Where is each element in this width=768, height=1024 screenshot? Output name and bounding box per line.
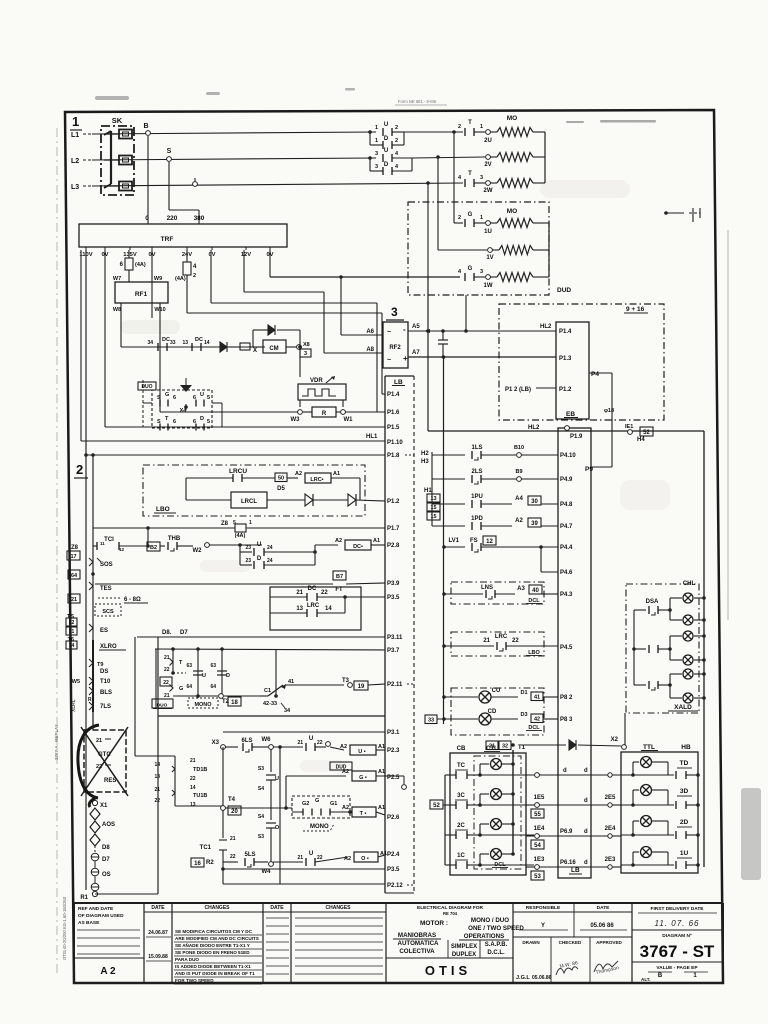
- wire C1 to T3: [285, 684, 344, 686]
- wire 0V drop c: [210, 250, 212, 303]
- terminal IE1 + H4: [628, 430, 633, 435]
- terminal X1: [92, 800, 97, 805]
- relay LRCL box: [231, 492, 267, 508]
- terminal row1: [535, 773, 540, 778]
- svg-text:AOS: AOS: [102, 822, 115, 828]
- svg-text:P1.6: P1.6: [387, 410, 400, 416]
- svg-text:-: -: [403, 325, 406, 334]
- svg-text:33: 33: [428, 718, 434, 724]
- svg-text:1: 1: [249, 520, 252, 526]
- connector column HL2 (right): [558, 428, 591, 878]
- label XLRL rotated: [71, 699, 77, 712]
- svg-text:LV1: LV1: [448, 538, 459, 544]
- svg-text:TC1: TC1: [200, 845, 212, 851]
- spare contact symbol right: [664, 211, 668, 215]
- lamp CU row P8.2: [444, 696, 478, 698]
- svg-text:23: 23: [245, 545, 251, 551]
- svg-text:21: 21: [164, 655, 170, 661]
- svg-text:W9: W9: [154, 276, 162, 282]
- svg-text:2C: 2C: [457, 823, 465, 829]
- contact 4G3: [465, 273, 474, 281]
- wire P4 to P9 link: [589, 372, 612, 374]
- svg-text:21: 21: [483, 638, 490, 644]
- svg-text:B: B: [658, 973, 663, 979]
- svg-text:G: G: [179, 686, 183, 692]
- wire 0V drop b: [151, 250, 153, 318]
- svg-text:C1: C1: [264, 688, 271, 694]
- lamp 3: [683, 631, 693, 641]
- svg-text:P4.9: P4.9: [560, 477, 573, 483]
- wire T4 row: [225, 807, 292, 809]
- svg-text:13: 13: [430, 496, 436, 502]
- svg-text:2W: 2W: [484, 188, 493, 194]
- svg-text:1C: 1C: [457, 853, 465, 859]
- svg-text:~: ~: [387, 329, 391, 336]
- wire 24V drop + fuse 4: [186, 250, 188, 262]
- svg-text:W8: W8: [113, 307, 121, 313]
- svg-text:LRC: LRC: [307, 603, 320, 609]
- contact LV1 FS row P4.4: [445, 546, 465, 548]
- svg-text:14: 14: [69, 643, 75, 649]
- svg-text:MANIOBRAS: MANIOBRAS: [398, 932, 436, 939]
- wire row CM: [121, 346, 265, 348]
- wire row W3: [160, 411, 300, 413]
- contact 1LS row P4.10: [432, 454, 465, 456]
- svg-text:d: d: [584, 829, 588, 835]
- cap contact 63D64: [221, 649, 223, 696]
- tap X on L3: [193, 182, 198, 187]
- lamp row TC: [478, 773, 482, 777]
- svg-text:34: 34: [284, 708, 291, 714]
- box TTL HB: [621, 752, 698, 873]
- svg-text:G •: G •: [359, 775, 367, 781]
- svg-text:21: 21: [297, 740, 303, 746]
- svg-text:P3.7: P3.7: [387, 648, 400, 654]
- contact 34 DC 33: [158, 343, 167, 351]
- svg-text:OF DIAGRAM USED: OF DIAGRAM USED: [78, 913, 124, 919]
- svg-text:MO: MO: [507, 208, 517, 215]
- wire bus into GTC: [92, 712, 94, 730]
- svg-text:14: 14: [154, 762, 160, 768]
- svg-text:W5: W5: [72, 679, 80, 685]
- contact 4T3: [465, 179, 474, 187]
- svg-text:13: 13: [182, 340, 188, 346]
- wire row 716: [158, 715, 385, 717]
- wire branch L2 to D contact: [368, 156, 372, 160]
- bank2 right bus: [548, 223, 550, 277]
- svg-text:MONO / DUO: MONO / DUO: [471, 917, 509, 924]
- svg-text:DC: DC: [195, 337, 203, 343]
- svg-text:MOTOR :: MOTOR :: [420, 920, 448, 927]
- svg-text:L3: L3: [71, 184, 79, 191]
- wire 0V rail a: [104, 250, 106, 427]
- box LNS (dash-dot): [451, 582, 544, 604]
- wire branch L1 to D contact: [368, 130, 372, 134]
- wire XALD to X2: [624, 713, 626, 745]
- svg-text:DSA: DSA: [646, 599, 659, 605]
- node X8: [297, 345, 302, 350]
- svg-text:P6.16: P6.16: [560, 860, 576, 866]
- svg-text:P1.8: P1.8: [387, 453, 400, 459]
- XALD left bus: [633, 610, 635, 685]
- svg-text:DS: DS: [100, 669, 108, 675]
- svg-text:15: 15: [430, 514, 436, 520]
- svg-text:(4A): (4A): [235, 533, 246, 539]
- svg-text:LNS: LNS: [481, 585, 493, 591]
- svg-text:1W: 1W: [484, 283, 493, 289]
- wire bus mid: [443, 357, 445, 724]
- box DUO label: [138, 382, 156, 390]
- rectifier RF2: [383, 322, 408, 368]
- svg-text:W6: W6: [262, 737, 272, 743]
- parallel contacts 23U24 / 23D24: [239, 545, 241, 565]
- svg-text:D5: D5: [277, 486, 285, 492]
- contact 7LS: [89, 702, 93, 710]
- terminal W1: [341, 410, 346, 415]
- svg-text:CM: CM: [269, 346, 278, 352]
- wire DUD output down: [465, 295, 467, 331]
- scan noise left margin text (rotated): [54, 724, 59, 760]
- contact TES: [89, 582, 93, 590]
- svg-text:22: 22: [69, 620, 75, 626]
- svg-text:D: D: [226, 673, 230, 679]
- svg-text:DUPLEX: DUPLEX: [452, 952, 476, 958]
- svg-text:L1: L1: [71, 132, 79, 139]
- svg-text:54: 54: [534, 843, 541, 849]
- wire P2.12 row: [223, 883, 385, 885]
- svg-text:DUO: DUO: [157, 703, 168, 709]
- svg-text:W3: W3: [291, 417, 301, 423]
- svg-text:T10: T10: [100, 679, 111, 685]
- svg-text:G: G: [315, 798, 319, 804]
- svg-text:VALUE - PAGE EP: VALUE - PAGE EP: [656, 965, 698, 971]
- svg-text:H4: H4: [637, 437, 645, 443]
- svg-text:W1: W1: [344, 417, 354, 423]
- contact 3D4: [383, 167, 392, 175]
- lamp CD row P8.3: [425, 715, 437, 724]
- svg-text:DATE: DATE: [151, 905, 165, 911]
- wire row 2C out: [480, 834, 534, 836]
- svg-text:1V: 1V: [486, 255, 493, 261]
- svg-text:13: 13: [296, 606, 303, 612]
- svg-text:P2.4: P2.4: [387, 852, 400, 858]
- relay GTC box with cross: [84, 730, 126, 792]
- svg-text:24: 24: [267, 558, 273, 564]
- svg-text:IE1: IE1: [625, 424, 633, 430]
- svg-text:S4: S4: [258, 814, 264, 820]
- contact LRC row P4.5: [444, 645, 494, 647]
- svg-text:P1.2: P1.2: [559, 387, 572, 393]
- svg-text:P4: P4: [591, 371, 599, 378]
- contact DSA 3: [634, 684, 646, 686]
- svg-text:11. 07. 66: 11. 07. 66: [655, 919, 700, 928]
- svg-text:P3.1: P3.1: [387, 730, 400, 736]
- svg-text:D3: D3: [520, 712, 527, 718]
- wire P3.11 row: [137, 636, 385, 638]
- svg-text:22: 22: [230, 854, 236, 860]
- svg-text:RE 704: RE 704: [443, 911, 458, 916]
- bank1 right bus: [544, 132, 546, 183]
- svg-text:B10: B10: [514, 445, 524, 451]
- svg-text:1PU: 1PU: [471, 494, 483, 500]
- wire to P1.8 / section2 top: [86, 454, 385, 456]
- wire 110V rail: [85, 250, 87, 890]
- svg-text:P3.5: P3.5: [387, 867, 400, 873]
- svg-text:2: 2: [193, 273, 196, 279]
- svg-text:U: U: [202, 673, 206, 679]
- wire T1 drop: [512, 750, 514, 854]
- svg-text:T •: T •: [360, 811, 367, 817]
- svg-text:3767-A REPLAY: 3767-A REPLAY: [54, 724, 59, 760]
- resistor R box: [303, 411, 312, 413]
- svg-text:XLRO: XLRO: [100, 644, 117, 650]
- wire x280 drop: [278, 745, 282, 749]
- svg-text:P1.4: P1.4: [387, 392, 400, 398]
- wire TD1B/TU1B chain: [135, 755, 175, 757]
- svg-text:HB: HB: [681, 744, 691, 751]
- box 21: [68, 594, 80, 603]
- capacitor S3/U/S4 upper: [270, 749, 272, 772]
- svg-text:A2: A2: [295, 471, 302, 477]
- lamp row 1U: [621, 864, 674, 866]
- svg-text:24.06.87: 24.06.87: [148, 930, 168, 936]
- svg-text:42: 42: [534, 717, 540, 723]
- contact 1D2: [383, 141, 392, 149]
- svg-text:Z8: Z8: [221, 521, 229, 527]
- svg-text:5: 5: [207, 419, 210, 425]
- svg-text:H3: H3: [421, 459, 429, 465]
- switch SK pole 2: [119, 156, 132, 165]
- svg-text:32: 32: [502, 744, 508, 750]
- box CU CD lamps (dash-dot): [451, 688, 544, 735]
- terminal W4: [269, 862, 274, 867]
- svg-text:6: 6: [173, 395, 176, 401]
- svg-text:U: U: [384, 122, 388, 128]
- connector column LB: [384, 376, 386, 893]
- svg-text:P3.9: P3.9: [387, 581, 400, 587]
- svg-text:LB: LB: [394, 379, 403, 386]
- svg-text:22: 22: [154, 798, 160, 804]
- svg-text:1LS: 1LS: [471, 445, 482, 451]
- svg-text:FS: FS: [470, 538, 478, 544]
- svg-text:DC: DC: [162, 337, 170, 343]
- left bus CB: [444, 775, 446, 865]
- svg-text:PARA DUO: PARA DUO: [175, 957, 199, 962]
- svg-text:(4A): (4A): [175, 276, 186, 282]
- svg-text:A7: A7: [412, 350, 420, 356]
- svg-text:D: D: [384, 136, 389, 142]
- svg-text:13: 13: [154, 774, 160, 780]
- svg-text:U: U: [257, 542, 261, 548]
- svg-text:P4.5: P4.5: [560, 645, 573, 651]
- svg-text:2: 2: [458, 124, 461, 130]
- wire chain heavy segment: [92, 640, 94, 712]
- svg-text:CHECKED: CHECKED: [559, 940, 582, 945]
- svg-text:2E3: 2E3: [605, 857, 616, 863]
- wire X3 row / 6LS: [225, 746, 238, 748]
- contact group S G 6 / X4: [152, 390, 212, 428]
- svg-text:S: S: [167, 148, 172, 155]
- svg-text:G2: G2: [302, 801, 309, 807]
- svg-text:P4.10: P4.10: [560, 453, 576, 459]
- svg-text:TU1B: TU1B: [193, 793, 207, 799]
- svg-text:P2.8: P2.8: [387, 543, 400, 549]
- diode to X2: [521, 744, 566, 746]
- svg-text:22: 22: [163, 680, 169, 686]
- svg-text:X3: X3: [212, 740, 220, 746]
- wire P3.7 row: [155, 649, 385, 650]
- box LRCU (dash-dot): [143, 465, 365, 516]
- svg-text:~: ~: [387, 357, 391, 364]
- wire R1 bottom run: [95, 893, 158, 895]
- svg-text:21: 21: [230, 836, 236, 842]
- svg-text:P3.5: P3.5: [387, 595, 400, 601]
- svg-text:A6: A6: [366, 329, 374, 335]
- wire P2.12 tail: [407, 884, 414, 886]
- contact SCS dashed box: [95, 604, 121, 616]
- svg-text:P2.6: P2.6: [387, 815, 400, 821]
- svg-text:LRC•: LRC•: [310, 477, 323, 483]
- svg-text:1: 1: [375, 138, 378, 144]
- box 64: [68, 570, 80, 579]
- contact 1PU row P4.8: [432, 503, 465, 505]
- box DC/LRC retard: [270, 587, 361, 630]
- svg-text:17: 17: [70, 554, 76, 560]
- switch SK pole 3: [119, 182, 132, 191]
- svg-text:CHANGES: CHANGES: [325, 905, 351, 911]
- svg-text:XALD: XALD: [674, 704, 692, 711]
- svg-text:O: O: [275, 825, 280, 831]
- svg-text:CU: CU: [492, 688, 501, 694]
- relay coil T: [350, 811, 352, 813]
- svg-text:P2.12: P2.12: [387, 883, 403, 889]
- capacitor on A5/A7 link: [442, 331, 444, 340]
- svg-text:21: 21: [190, 758, 196, 764]
- svg-text:+: +: [403, 354, 408, 363]
- title col dividers: [143, 903, 145, 983]
- svg-text:H2: H2: [421, 451, 429, 457]
- svg-text:A2: A2: [344, 856, 351, 862]
- svg-text:18: 18: [231, 700, 238, 706]
- svg-text:P1.2: P1.2: [387, 499, 400, 505]
- svg-text:MONO: MONO: [194, 702, 212, 708]
- svg-text:AUTOMATICA: AUTOMATICA: [397, 940, 439, 947]
- svg-text:AS BASE: AS BASE: [78, 920, 100, 926]
- scan noise left margin fold line: [56, 128, 58, 975]
- right lamp bus: [703, 431, 705, 867]
- svg-text:Form NE 681 - 8-M6: Form NE 681 - 8-M6: [398, 99, 437, 104]
- svg-text:MONO: MONO: [310, 824, 329, 830]
- brush symbol X: [240, 343, 250, 350]
- svg-text:22: 22: [317, 855, 323, 861]
- svg-text:(4A): (4A): [135, 262, 146, 268]
- svg-text:22: 22: [512, 638, 519, 644]
- pin P2.11 dashes: [407, 683, 414, 685]
- svg-text:P1.7: P1.7: [387, 526, 400, 532]
- svg-text:55: 55: [534, 812, 541, 818]
- scan noise faint patches: [120, 180, 670, 772]
- svg-text:21: 21: [164, 693, 170, 699]
- svg-text:ALT.: ALT.: [641, 977, 650, 982]
- svg-text:SK: SK: [112, 116, 123, 125]
- lamp row 2D: [621, 834, 674, 836]
- wire LRCL row: [185, 478, 187, 500]
- svg-text:RES: RES: [104, 778, 116, 784]
- svg-text:2: 2: [395, 125, 398, 131]
- svg-text:R: R: [322, 411, 327, 417]
- svg-text:P2.11: P2.11: [387, 682, 403, 688]
- svg-text:P1.3: P1.3: [559, 356, 572, 362]
- wire HL2 line: [428, 430, 648, 432]
- svg-text:P1 2 (LB): P1 2 (LB): [505, 387, 531, 393]
- svg-text:TTL: TTL: [643, 744, 655, 751]
- svg-text:3: 3: [375, 164, 378, 170]
- lamp row 3C: [478, 803, 482, 807]
- svg-text:TES: TES: [100, 586, 112, 592]
- svg-text:T: T: [468, 120, 472, 126]
- svg-text:MO: MO: [507, 115, 517, 122]
- svg-text:OTIS 40-20/200 KG-1.60-150/260: OTIS 40-20/200 KG-1.60-150/260: [62, 896, 67, 960]
- svg-text:HL1: HL1: [366, 434, 378, 440]
- svg-text:O •: O •: [361, 856, 369, 862]
- svg-text:R2: R2: [206, 860, 214, 866]
- diode branch above CM: [252, 330, 254, 347]
- svg-text:D: D: [200, 416, 204, 422]
- svg-text:53: 53: [534, 874, 541, 880]
- box LRC (dash-dot): [451, 632, 544, 656]
- lamp 5: [683, 669, 693, 679]
- svg-text:OPERATIONS: OPERATIONS: [464, 933, 504, 940]
- wire stair to A8: [244, 291, 324, 293]
- svg-text:ES: ES: [100, 628, 108, 634]
- svg-text:0V: 0V: [208, 252, 215, 258]
- svg-text:U: U: [309, 851, 313, 857]
- svg-text:OS: OS: [102, 872, 111, 878]
- svg-text:20: 20: [231, 809, 238, 815]
- svg-text:U: U: [275, 776, 279, 782]
- wire row 3C out: [480, 804, 534, 806]
- svg-text:B7: B7: [336, 574, 343, 580]
- box DUD (dash-dot): [408, 202, 549, 295]
- svg-text:S3: S3: [258, 766, 264, 772]
- svg-text:XLRL: XLRL: [71, 699, 77, 712]
- switch SK pole 1: [119, 130, 132, 139]
- svg-text:d: d: [563, 768, 567, 774]
- svg-text:0: 0: [145, 215, 149, 222]
- svg-text:ARE MODIFIED CM AND DC CIRCUIT: ARE MODIFIED CM AND DC CIRCUITS: [175, 936, 259, 941]
- contact 2LS row P4.9: [432, 478, 465, 480]
- svg-text:ONE / TWO SPEED: ONE / TWO SPEED: [468, 925, 524, 932]
- svg-text:15.09.88: 15.09.88: [148, 954, 168, 960]
- svg-text:3C: 3C: [457, 793, 465, 799]
- svg-text:T: T: [468, 171, 472, 177]
- svg-text:11: 11: [100, 541, 105, 546]
- contact BLS: [89, 687, 93, 695]
- wire W10 down: [159, 303, 161, 412]
- svg-text:X8: X8: [303, 342, 310, 348]
- svg-text:P1.9: P1.9: [570, 434, 583, 440]
- lamp row 1C: [478, 863, 482, 867]
- svg-text:2V: 2V: [484, 162, 491, 168]
- wire to P1.5: [105, 426, 385, 428]
- contact T9: [89, 659, 93, 667]
- svg-text:15: 15: [430, 505, 436, 511]
- wire d-row 1: [558, 774, 621, 776]
- box XALD (dash-dot): [626, 584, 699, 713]
- svg-text:50: 50: [278, 476, 284, 482]
- svg-text:23: 23: [245, 558, 251, 564]
- svg-text:52: 52: [433, 803, 440, 809]
